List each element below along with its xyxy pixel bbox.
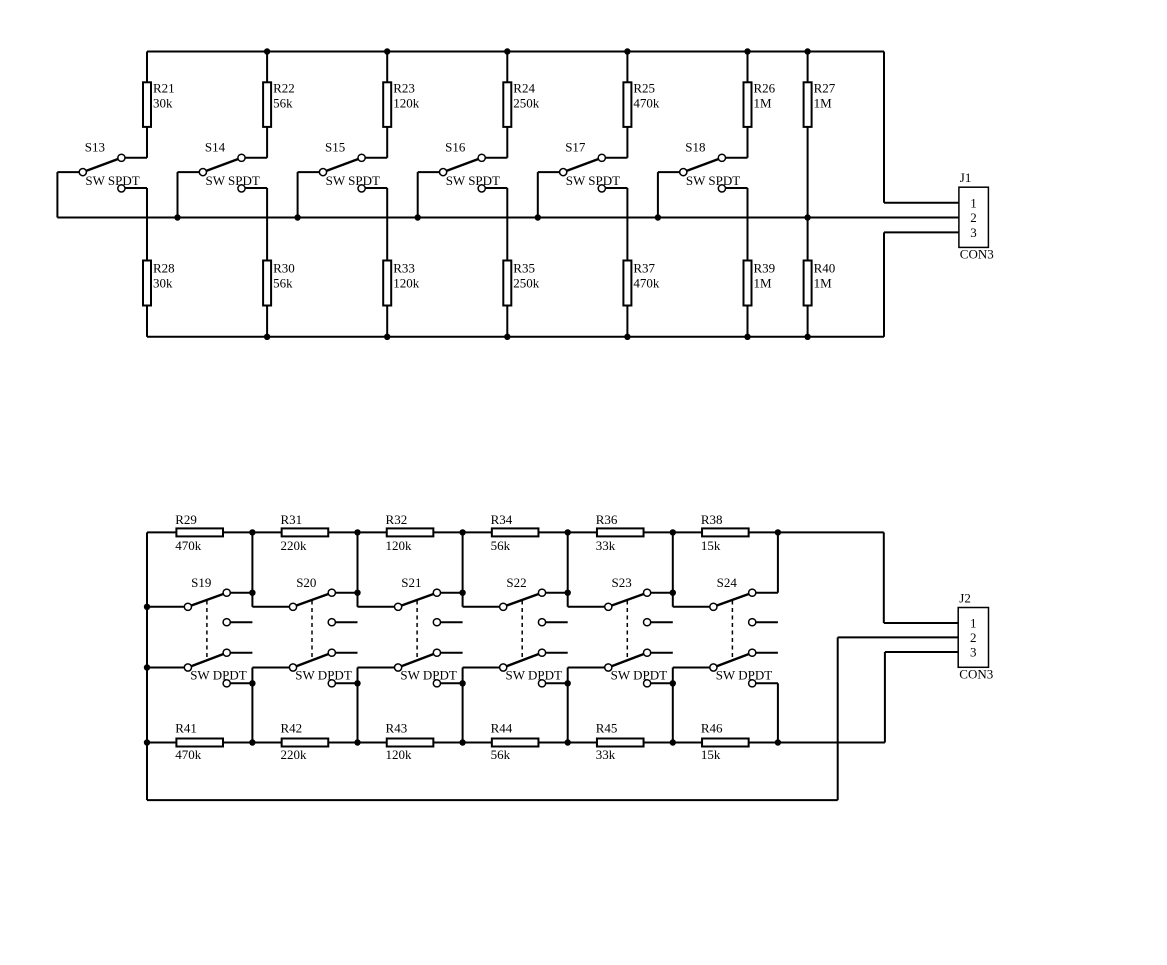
svg-text:33k: 33k: [596, 747, 616, 762]
svg-text:56k: 56k: [273, 276, 293, 291]
svg-text:S20: S20: [296, 575, 316, 590]
svg-text:S15: S15: [325, 140, 345, 155]
svg-text:30k: 30k: [153, 276, 173, 291]
svg-text:SW DPDT: SW DPDT: [190, 667, 247, 682]
svg-text:220k: 220k: [280, 747, 307, 762]
svg-text:S23: S23: [612, 575, 632, 590]
svg-text:CON3: CON3: [960, 247, 994, 262]
svg-text:3: 3: [970, 645, 977, 660]
svg-text:1M: 1M: [814, 276, 833, 291]
svg-text:R23: R23: [393, 80, 415, 95]
svg-text:R34: R34: [491, 512, 513, 527]
svg-text:R35: R35: [513, 260, 535, 275]
svg-text:470k: 470k: [175, 747, 202, 762]
svg-text:33k: 33k: [596, 538, 616, 553]
svg-text:R42: R42: [280, 720, 302, 735]
svg-text:S13: S13: [85, 140, 105, 155]
svg-text:470k: 470k: [175, 538, 202, 553]
svg-text:R21: R21: [153, 80, 175, 95]
svg-text:R22: R22: [273, 80, 295, 95]
svg-text:R45: R45: [596, 720, 618, 735]
svg-text:1: 1: [970, 196, 977, 211]
svg-text:J1: J1: [960, 170, 972, 185]
svg-text:S21: S21: [401, 575, 421, 590]
svg-text:R38: R38: [701, 512, 723, 527]
svg-text:SW SPDT: SW SPDT: [446, 173, 500, 188]
svg-text:1M: 1M: [814, 96, 833, 111]
svg-text:SW SPDT: SW SPDT: [206, 173, 260, 188]
svg-text:SW SPDT: SW SPDT: [566, 173, 620, 188]
svg-text:56k: 56k: [273, 96, 293, 111]
svg-text:56k: 56k: [491, 538, 511, 553]
svg-text:S24: S24: [717, 575, 738, 590]
svg-text:120k: 120k: [386, 747, 413, 762]
svg-text:SW DPDT: SW DPDT: [716, 667, 773, 682]
svg-text:SW SPDT: SW SPDT: [326, 173, 380, 188]
svg-text:R36: R36: [596, 512, 618, 527]
svg-text:R30: R30: [273, 260, 295, 275]
svg-text:250k: 250k: [513, 96, 540, 111]
svg-text:S14: S14: [205, 140, 226, 155]
svg-text:470k: 470k: [633, 276, 660, 291]
svg-text:S19: S19: [191, 575, 211, 590]
svg-text:R29: R29: [175, 512, 197, 527]
svg-text:R26: R26: [754, 80, 776, 95]
svg-text:R28: R28: [153, 260, 175, 275]
svg-text:SW DPDT: SW DPDT: [611, 667, 668, 682]
svg-text:220k: 220k: [280, 538, 307, 553]
svg-text:R24: R24: [513, 80, 535, 95]
svg-text:SW SPDT: SW SPDT: [85, 173, 139, 188]
svg-text:3: 3: [970, 225, 977, 240]
svg-text:SW DPDT: SW DPDT: [400, 667, 457, 682]
svg-text:R40: R40: [814, 260, 836, 275]
svg-text:R27: R27: [814, 80, 836, 95]
svg-text:470k: 470k: [633, 96, 660, 111]
svg-text:R31: R31: [280, 512, 302, 527]
svg-text:SW DPDT: SW DPDT: [295, 667, 352, 682]
svg-text:SW SPDT: SW SPDT: [686, 173, 740, 188]
svg-text:SW DPDT: SW DPDT: [506, 667, 563, 682]
svg-text:15k: 15k: [701, 538, 721, 553]
svg-text:R43: R43: [386, 720, 408, 735]
svg-text:1M: 1M: [754, 96, 773, 111]
svg-text:2: 2: [970, 630, 977, 645]
svg-text:R41: R41: [175, 720, 197, 735]
svg-text:R32: R32: [386, 512, 408, 527]
svg-text:2: 2: [970, 210, 977, 225]
svg-text:120k: 120k: [386, 538, 413, 553]
svg-text:120k: 120k: [393, 276, 420, 291]
svg-text:S16: S16: [445, 140, 466, 155]
svg-text:R44: R44: [491, 720, 513, 735]
svg-text:J2: J2: [959, 591, 971, 606]
svg-text:R33: R33: [393, 260, 415, 275]
svg-text:R46: R46: [701, 720, 723, 735]
svg-text:56k: 56k: [491, 747, 511, 762]
svg-text:S22: S22: [506, 575, 526, 590]
svg-text:R37: R37: [633, 260, 655, 275]
svg-text:30k: 30k: [153, 96, 173, 111]
svg-text:S18: S18: [685, 140, 705, 155]
svg-text:CON3: CON3: [959, 667, 993, 682]
svg-text:1M: 1M: [754, 276, 773, 291]
svg-text:S17: S17: [565, 140, 586, 155]
svg-text:1: 1: [970, 616, 977, 631]
svg-text:250k: 250k: [513, 276, 540, 291]
svg-text:R25: R25: [633, 80, 655, 95]
svg-text:15k: 15k: [701, 747, 721, 762]
svg-text:120k: 120k: [393, 96, 420, 111]
svg-text:R39: R39: [754, 260, 776, 275]
